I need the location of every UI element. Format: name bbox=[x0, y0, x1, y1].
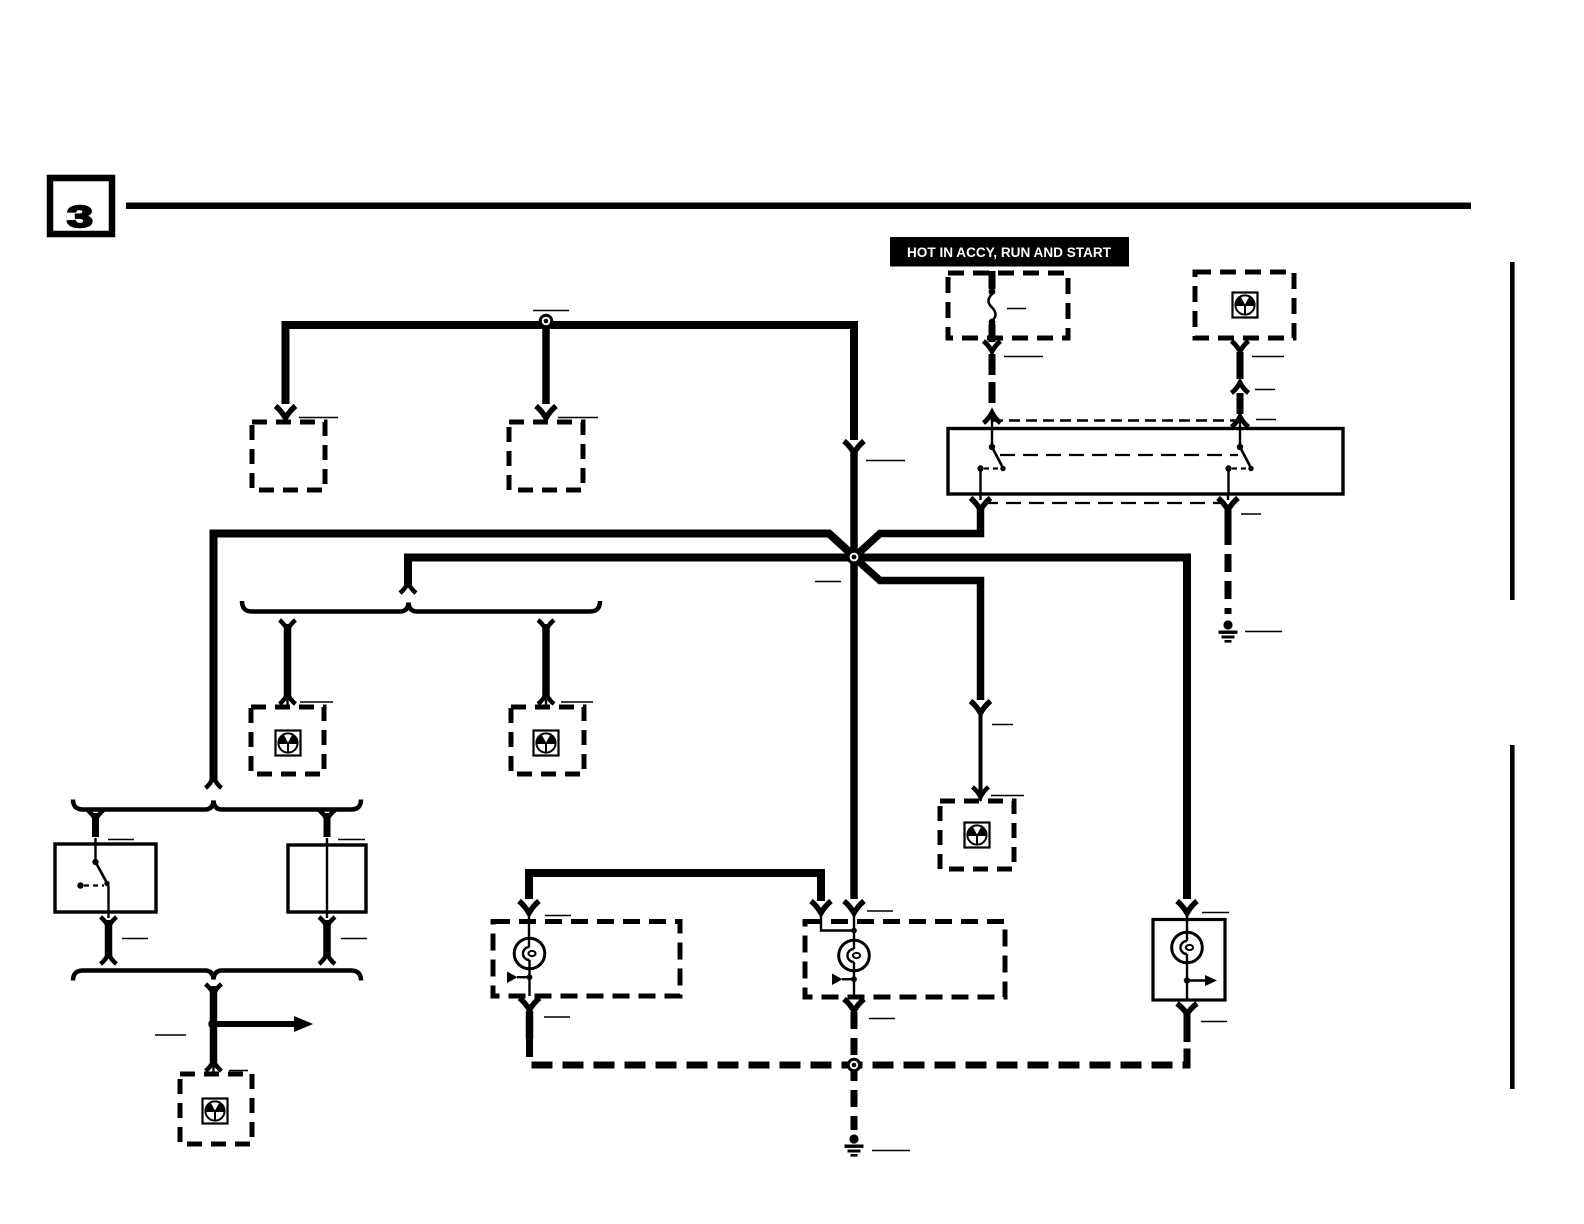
svg-text:HOT IN ACCY, RUN AND START: HOT IN ACCY, RUN AND START bbox=[907, 245, 1112, 260]
arrow out of lamp box J bbox=[520, 998, 540, 1010]
switch left output arrow bbox=[979, 494, 981, 500]
pin label G top bbox=[108, 839, 134, 841]
connector box D (dashed) bbox=[940, 801, 1014, 869]
connector box A bbox=[252, 422, 325, 490]
steering wheel icon in box E bbox=[276, 731, 301, 756]
steering column connector box C (dashed) bbox=[1195, 272, 1294, 338]
solid stub below box L bbox=[1184, 1014, 1191, 1042]
pin label J top bbox=[545, 915, 571, 917]
wire switch left output to junction bbox=[856, 509, 981, 556]
pin label switch top right bbox=[1256, 419, 1276, 421]
wire label at branch arrow bbox=[155, 1034, 186, 1036]
brace joiner 3 bbox=[73, 971, 361, 981]
fuse element bbox=[989, 271, 996, 342]
ground label center bbox=[872, 1150, 910, 1152]
arrow below box C bbox=[1232, 341, 1249, 352]
sidebar segment upper bbox=[1510, 262, 1515, 600]
dashed wire fuse to switch bbox=[989, 354, 996, 410]
wire label below fuse bbox=[1004, 356, 1043, 358]
page number box "3" bbox=[50, 178, 112, 234]
arrow mid (up) bbox=[1232, 383, 1249, 394]
pin label H bottom bbox=[341, 938, 367, 940]
pin label J bottom bbox=[544, 1016, 570, 1018]
node on ground run bbox=[847, 1058, 861, 1072]
connector box F (dashed) bbox=[511, 707, 584, 774]
lamp element in box L bbox=[1172, 913, 1217, 1000]
wire box C to switch, segment 2 bbox=[1237, 393, 1244, 414]
pin label G bottom bbox=[122, 938, 148, 940]
pin label K top bbox=[867, 910, 893, 912]
solid stub below box J bbox=[526, 1011, 534, 1039]
end flare before box D bbox=[973, 787, 989, 797]
wire label to box D lower bbox=[991, 795, 1024, 797]
lamp box K (dashed) bbox=[805, 922, 1005, 998]
switch element in box G bbox=[77, 844, 109, 912]
lamp element in box K bbox=[821, 913, 869, 997]
dashed link above switch box bbox=[992, 419, 1240, 422]
arrow on main vertical wire bbox=[844, 441, 864, 453]
label underlines (wire designation leaders) bbox=[108, 309, 1284, 1151]
wire label to box D upper bbox=[992, 724, 1013, 726]
wire drop to box B bbox=[542, 328, 550, 404]
arrow into lamp box K left bbox=[811, 901, 831, 913]
dashed link below switch box bbox=[983, 502, 1226, 504]
node label top bus bbox=[533, 310, 569, 312]
dashed wire box K to ground bbox=[851, 1012, 858, 1130]
wire box C to switch, segment 1 bbox=[1237, 352, 1244, 379]
switch box G bbox=[55, 844, 156, 912]
thin wire to box D bbox=[979, 713, 983, 793]
wire drop to box H bbox=[324, 813, 331, 837]
wire top feed bus bbox=[286, 325, 855, 440]
arrow on wire to interior light connector bbox=[971, 701, 991, 713]
title rule bbox=[126, 203, 1471, 210]
end hook of left feed bus bbox=[206, 777, 222, 788]
steering wheel icon in box I bbox=[203, 1099, 228, 1124]
pin label L top bbox=[1202, 912, 1229, 914]
main junction node bbox=[847, 550, 862, 565]
end hook of y557 left stub bbox=[400, 583, 416, 593]
wire drop to switch box G bbox=[92, 813, 99, 837]
arrow out of lamp box K bbox=[844, 999, 864, 1011]
wire junction to interior light connector bbox=[856, 559, 981, 700]
arrow into connector box B bbox=[536, 406, 556, 418]
brace splitter 2 bbox=[73, 800, 361, 810]
box H output wire bbox=[326, 912, 328, 918]
arrow into lamp box L bbox=[1177, 901, 1197, 913]
switch G output wire bbox=[107, 912, 109, 918]
label at box I bbox=[229, 1070, 248, 1072]
arrow into connector box A bbox=[276, 406, 296, 418]
wire label mid C chain bbox=[1255, 389, 1275, 391]
switch right output arrow bbox=[1227, 494, 1229, 500]
ground symbol right bbox=[1219, 620, 1238, 642]
wire drop to box F bbox=[542, 624, 550, 697]
wire right output to ground (dashed) bbox=[1225, 510, 1232, 527]
wire below brace 3 bbox=[210, 986, 218, 1065]
wire stub into box I bbox=[212, 1066, 214, 1074]
steering wheel icon in box F bbox=[534, 731, 559, 756]
arrow below fuse box bbox=[984, 341, 1001, 352]
wire left feed bus y533 bbox=[214, 534, 853, 781]
brace splitter 1 bbox=[242, 601, 600, 612]
arrow into switch (up) bbox=[984, 413, 1001, 424]
label at box E bbox=[300, 701, 333, 703]
header label HOT IN ACCY, RUN AND START bbox=[890, 237, 1129, 267]
connector box B bbox=[509, 422, 583, 490]
arrow main wire into lamp box K bbox=[844, 901, 864, 913]
main vertical wire bbox=[850, 451, 858, 899]
lamp box L bbox=[1153, 920, 1225, 1001]
switch pole left bbox=[977, 429, 1005, 494]
wire label at junction bbox=[815, 581, 841, 583]
fuse label bbox=[1007, 308, 1026, 310]
wire label at box A bbox=[299, 417, 338, 419]
bottom feed bus bbox=[529, 873, 821, 901]
dashed ground run J to L bbox=[530, 1014, 1188, 1065]
lamp element in box J bbox=[507, 913, 545, 996]
steering wheel icon in box D bbox=[965, 823, 990, 848]
ground symbol center bbox=[845, 1134, 864, 1156]
svg-text:3: 3 bbox=[67, 200, 93, 235]
component box H bbox=[288, 845, 366, 912]
lamp box J (dashed) bbox=[493, 922, 680, 997]
wire label main vertical bbox=[866, 460, 905, 462]
arrow into lamp box J bbox=[519, 901, 539, 913]
junction dot with branch arrow bbox=[208, 1019, 218, 1029]
wire drop to box E bbox=[284, 624, 292, 697]
sidebar segment lower bbox=[1510, 745, 1515, 1089]
pin label K bottom bbox=[869, 1018, 895, 1020]
wire label below box C bbox=[1252, 356, 1284, 358]
pin label H top bbox=[338, 839, 365, 841]
interior dashed link bbox=[1000, 454, 1238, 456]
steering wheel icon in box C bbox=[1233, 293, 1258, 318]
arrow out of lamp box L bbox=[1177, 1004, 1197, 1015]
connector box E (dashed) bbox=[251, 707, 324, 774]
pin label L bottom bbox=[1201, 1021, 1227, 1023]
label at box F bbox=[561, 701, 593, 703]
connector box I (dashed) bbox=[180, 1074, 252, 1144]
ground label right bbox=[1245, 631, 1282, 633]
node junction on top bus bbox=[539, 314, 554, 329]
switch pole right bbox=[1225, 429, 1253, 494]
pin label switch bottom right bbox=[1241, 513, 1261, 515]
arrow into switch (up) bbox=[1232, 417, 1249, 428]
fuse box (dashed) bbox=[948, 273, 1068, 338]
element line through box H bbox=[326, 845, 328, 912]
wire label at box B bbox=[558, 417, 598, 419]
wire main bus y557 to right lamp bbox=[408, 558, 1187, 900]
switch assembly box bbox=[948, 429, 1343, 495]
